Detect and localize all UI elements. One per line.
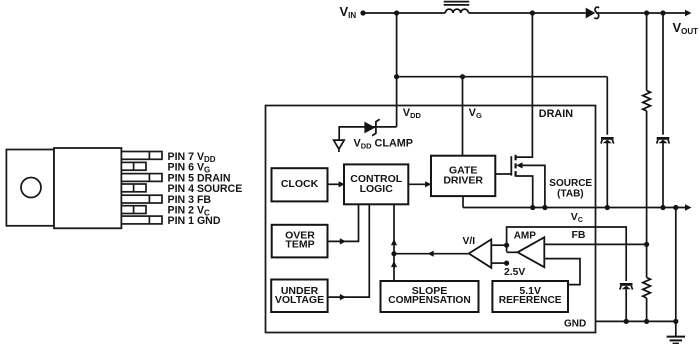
- wire over temp out: [328, 204, 359, 241]
- junction mosfet body: [542, 205, 547, 210]
- wire FB line: [544, 243, 646, 245]
- wire amp lower input to reference: [544, 259, 580, 285]
- svg-text:SOURCE: SOURCE: [549, 178, 592, 189]
- junction mosfet source: [530, 205, 535, 210]
- wire VIN rail middle: [469, 12, 586, 14]
- svg-text:VDD CLAMP: VDD CLAMP: [354, 138, 413, 151]
- junction gnd drop rail: [673, 205, 678, 210]
- diode D1 schottky: [586, 7, 600, 18]
- junction VOUT-divider: [644, 10, 649, 15]
- junction FB divider: [644, 242, 649, 247]
- svg-text:VC: VC: [571, 211, 583, 224]
- zener D2: [601, 137, 614, 144]
- wire slope comp to summing node: [393, 254, 395, 281]
- wire DRAIN drop: [515, 13, 532, 157]
- wire comp to gnd: [625, 289, 627, 321]
- wire VIN rail right: [596, 12, 689, 14]
- svg-text:VDD: VDD: [403, 107, 422, 120]
- wire amp output: [507, 251, 518, 253]
- block CLOCK: [272, 168, 328, 201]
- wire VIN rail left: [363, 12, 445, 14]
- wire summing node to control logic: [393, 204, 395, 253]
- junction zener1 rail: [605, 205, 610, 210]
- svg-text:VOUT: VOUT: [673, 20, 699, 36]
- op-amp U2 V/I converter: [469, 239, 492, 267]
- block GATE DRIVER: [431, 156, 495, 196]
- block CONTROL LOGIC: [344, 164, 408, 204]
- svg-text:LOGIC: LOGIC: [360, 183, 394, 195]
- transistor Q1 power MOSFET: [511, 155, 545, 208]
- resistor R2: [643, 278, 651, 299]
- junction VIN-VDD: [394, 10, 399, 15]
- wire under voltage out: [328, 204, 370, 297]
- svg-text:VG: VG: [469, 107, 482, 120]
- wire VDD drop: [396, 13, 398, 127]
- junction VG drop: [460, 74, 465, 79]
- wire VG rail: [397, 76, 608, 78]
- block UNDER VOLTAGE: [271, 280, 327, 313]
- svg-text:AMP: AMP: [514, 230, 537, 241]
- arrow VOUT: [685, 10, 692, 16]
- svg-text:PIN 4 SOURCE: PIN 4 SOURCE: [168, 183, 243, 195]
- junction VIN-DRAIN: [530, 10, 535, 15]
- node VIN terminal: [360, 10, 365, 15]
- arrow into gate driver: [425, 181, 431, 187]
- wire VI output: [394, 253, 469, 255]
- wire VI bottom input: [491, 262, 506, 264]
- pin 7 lead: [121, 152, 162, 160]
- wire VG drop: [462, 77, 464, 157]
- wire gnd drop: [675, 208, 677, 337]
- junction comp gnd: [624, 319, 629, 324]
- junction VDD-VG rail: [394, 74, 399, 79]
- node 2.5V reference: [504, 261, 509, 266]
- junction VC amp output: [504, 243, 509, 248]
- ground symbol: [667, 337, 685, 344]
- svg-text:V/I: V/I: [463, 236, 476, 247]
- wire VDD clamp: [339, 127, 396, 140]
- op-amp AMP error amplifier: [518, 237, 545, 267]
- junction gnd: [673, 319, 678, 324]
- zener D3: [657, 137, 670, 144]
- wire VC line: [507, 227, 627, 281]
- svg-text:VIN: VIN: [340, 4, 357, 20]
- wire control logic to gate driver: [408, 183, 426, 185]
- wire GND line: [596, 320, 676, 322]
- zener VDD clamp diode: [364, 119, 379, 135]
- internal ground arrow: [334, 140, 345, 152]
- arrow under voltage: [340, 294, 346, 300]
- svg-text:PIN 1 GND: PIN 1 GND: [168, 215, 221, 227]
- arrow VI output: [428, 251, 434, 257]
- wire divider line: [646, 13, 648, 321]
- pin 1 lead: [121, 216, 162, 224]
- block 5.1V REFERENCE: [492, 281, 568, 312]
- arrow slope comp up: [391, 261, 397, 267]
- svg-text:(TAB): (TAB): [557, 189, 583, 200]
- wire gate driver to mosfet gate: [495, 173, 511, 175]
- pin 3 lead: [121, 195, 162, 203]
- package body: [54, 148, 121, 228]
- block OVER TEMP: [272, 225, 328, 258]
- svg-text:COMPENSATION: COMPENSATION: [388, 295, 470, 306]
- svg-text:GND: GND: [564, 318, 586, 329]
- inductor L1: [444, 2, 470, 13]
- pin 5 lead: [121, 174, 162, 182]
- zener D4 compensation: [620, 283, 633, 290]
- junction divider gnd: [644, 319, 649, 324]
- arrow into control logic: [391, 239, 397, 245]
- svg-text:2.5V: 2.5V: [504, 267, 525, 278]
- wire VI top input: [491, 244, 506, 246]
- svg-text:CLOCK: CLOCK: [281, 178, 319, 190]
- svg-text:REFERENCE: REFERENCE: [499, 295, 562, 306]
- block SLOPE COMPENSATION: [381, 281, 479, 312]
- wire vout clamp line: [662, 13, 664, 208]
- svg-text:VOLTAGE: VOLTAGE: [275, 294, 324, 306]
- wire gate driver bottom to source rail: [462, 196, 464, 207]
- svg-text:DRAIN: DRAIN: [539, 108, 573, 120]
- IC boundary box: [266, 106, 596, 333]
- arrow source tab: [685, 204, 692, 210]
- arrow over temp: [340, 238, 346, 244]
- junction clamp2 rail: [660, 205, 665, 210]
- junction summing node: [391, 251, 396, 256]
- wire zener1 top: [606, 77, 608, 208]
- pin 4 lead: [121, 184, 146, 192]
- svg-text:FB: FB: [572, 229, 586, 241]
- pin 6 lead: [121, 162, 146, 170]
- svg-text:TEMP: TEMP: [285, 238, 314, 250]
- junction VOUT-clamp: [660, 10, 665, 15]
- wire source rail: [463, 207, 689, 209]
- arrow clock to control logic: [339, 181, 345, 187]
- resistor R1: [643, 91, 651, 111]
- wire clock to control logic: [328, 183, 341, 185]
- svg-text:DRIVER: DRIVER: [443, 175, 483, 187]
- pin 2 lead: [121, 206, 146, 214]
- package mounting hole: [21, 178, 41, 198]
- package tab: [6, 150, 54, 226]
